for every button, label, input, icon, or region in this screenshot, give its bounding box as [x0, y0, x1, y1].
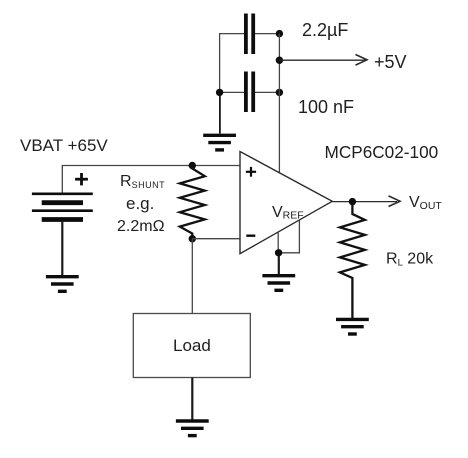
wire: +5V arrow [279, 59, 365, 61]
ground caps [203, 135, 236, 150]
battery BT1 plate short 2 [42, 217, 83, 222]
svg-text:2.2mΩ: 2.2mΩ [117, 218, 165, 235]
op-amp minus input label [246, 234, 255, 236]
svg-text:e.g.: e.g. [126, 194, 154, 213]
svg-text:MCP6C02-100: MCP6C02-100 [325, 142, 439, 162]
ground battery [46, 277, 79, 292]
svg-text:RL 20k: RL 20k [386, 251, 434, 269]
op-amp U1 triangle [240, 152, 332, 254]
node C2 right [276, 89, 283, 96]
svg-text:2.2µF: 2.2µF [302, 20, 348, 40]
wire: load bottom to ground [191, 378, 193, 421]
node +5V branch [276, 57, 283, 64]
svg-text:100 nF: 100 nF [298, 97, 354, 117]
node B: RSHUNT bottom junction [189, 235, 196, 242]
svg-text:Load: Load [173, 336, 211, 355]
wire: caps node to ground [219, 92, 221, 133]
wire: battery bottom to ground [61, 221, 63, 276]
ground load [176, 421, 209, 436]
wire: output [332, 201, 397, 203]
resistor RSHUNT [180, 166, 205, 239]
ground RL [336, 319, 369, 334]
node A: VBAT/RSHUNT top junction [189, 162, 196, 169]
capacitor C2 100nF plate right [251, 72, 255, 113]
wire: vref node to ground [278, 253, 280, 274]
wire: caps left vertical [220, 34, 244, 93]
arrowhead vout [389, 196, 401, 207]
node vref/gnd junction [275, 249, 282, 256]
resistor RL [340, 202, 365, 320]
battery BT1 plate long 2 [32, 209, 93, 212]
wire: RSHUNT bottom to load [191, 239, 193, 314]
ground vref [262, 276, 295, 291]
node C2 left [216, 89, 223, 96]
capacitor C1 2.2uF plate left [244, 14, 248, 55]
node C1 right [276, 30, 283, 37]
capacitor C1 2.2uF plate right [251, 14, 255, 55]
op-amp plus input label [246, 167, 256, 177]
battery plus sign [75, 173, 88, 185]
svg-text:VBAT +65V: VBAT +65V [20, 136, 108, 155]
wire: gnd pin down [277, 233, 279, 253]
battery BT1 plate short 1 [42, 200, 83, 205]
arrowhead +5V [356, 55, 368, 66]
wire: right vertical caps to opamp top [278, 34, 280, 174]
wire: C1 right to node [255, 33, 279, 35]
node output [349, 198, 356, 205]
wire: vref pin down-left [279, 221, 300, 253]
wire: RSHUNT bottom to opamp - input [192, 238, 240, 240]
load box [133, 314, 250, 378]
wire: C2 right [255, 91, 279, 93]
svg-text:+5V: +5V [374, 52, 407, 72]
wire: C2 left [220, 91, 244, 93]
capacitor C2 100nF plate left [244, 72, 248, 113]
battery BT1 plate long 1 [32, 193, 93, 196]
wire: battery top to opamp + input [62, 166, 240, 193]
